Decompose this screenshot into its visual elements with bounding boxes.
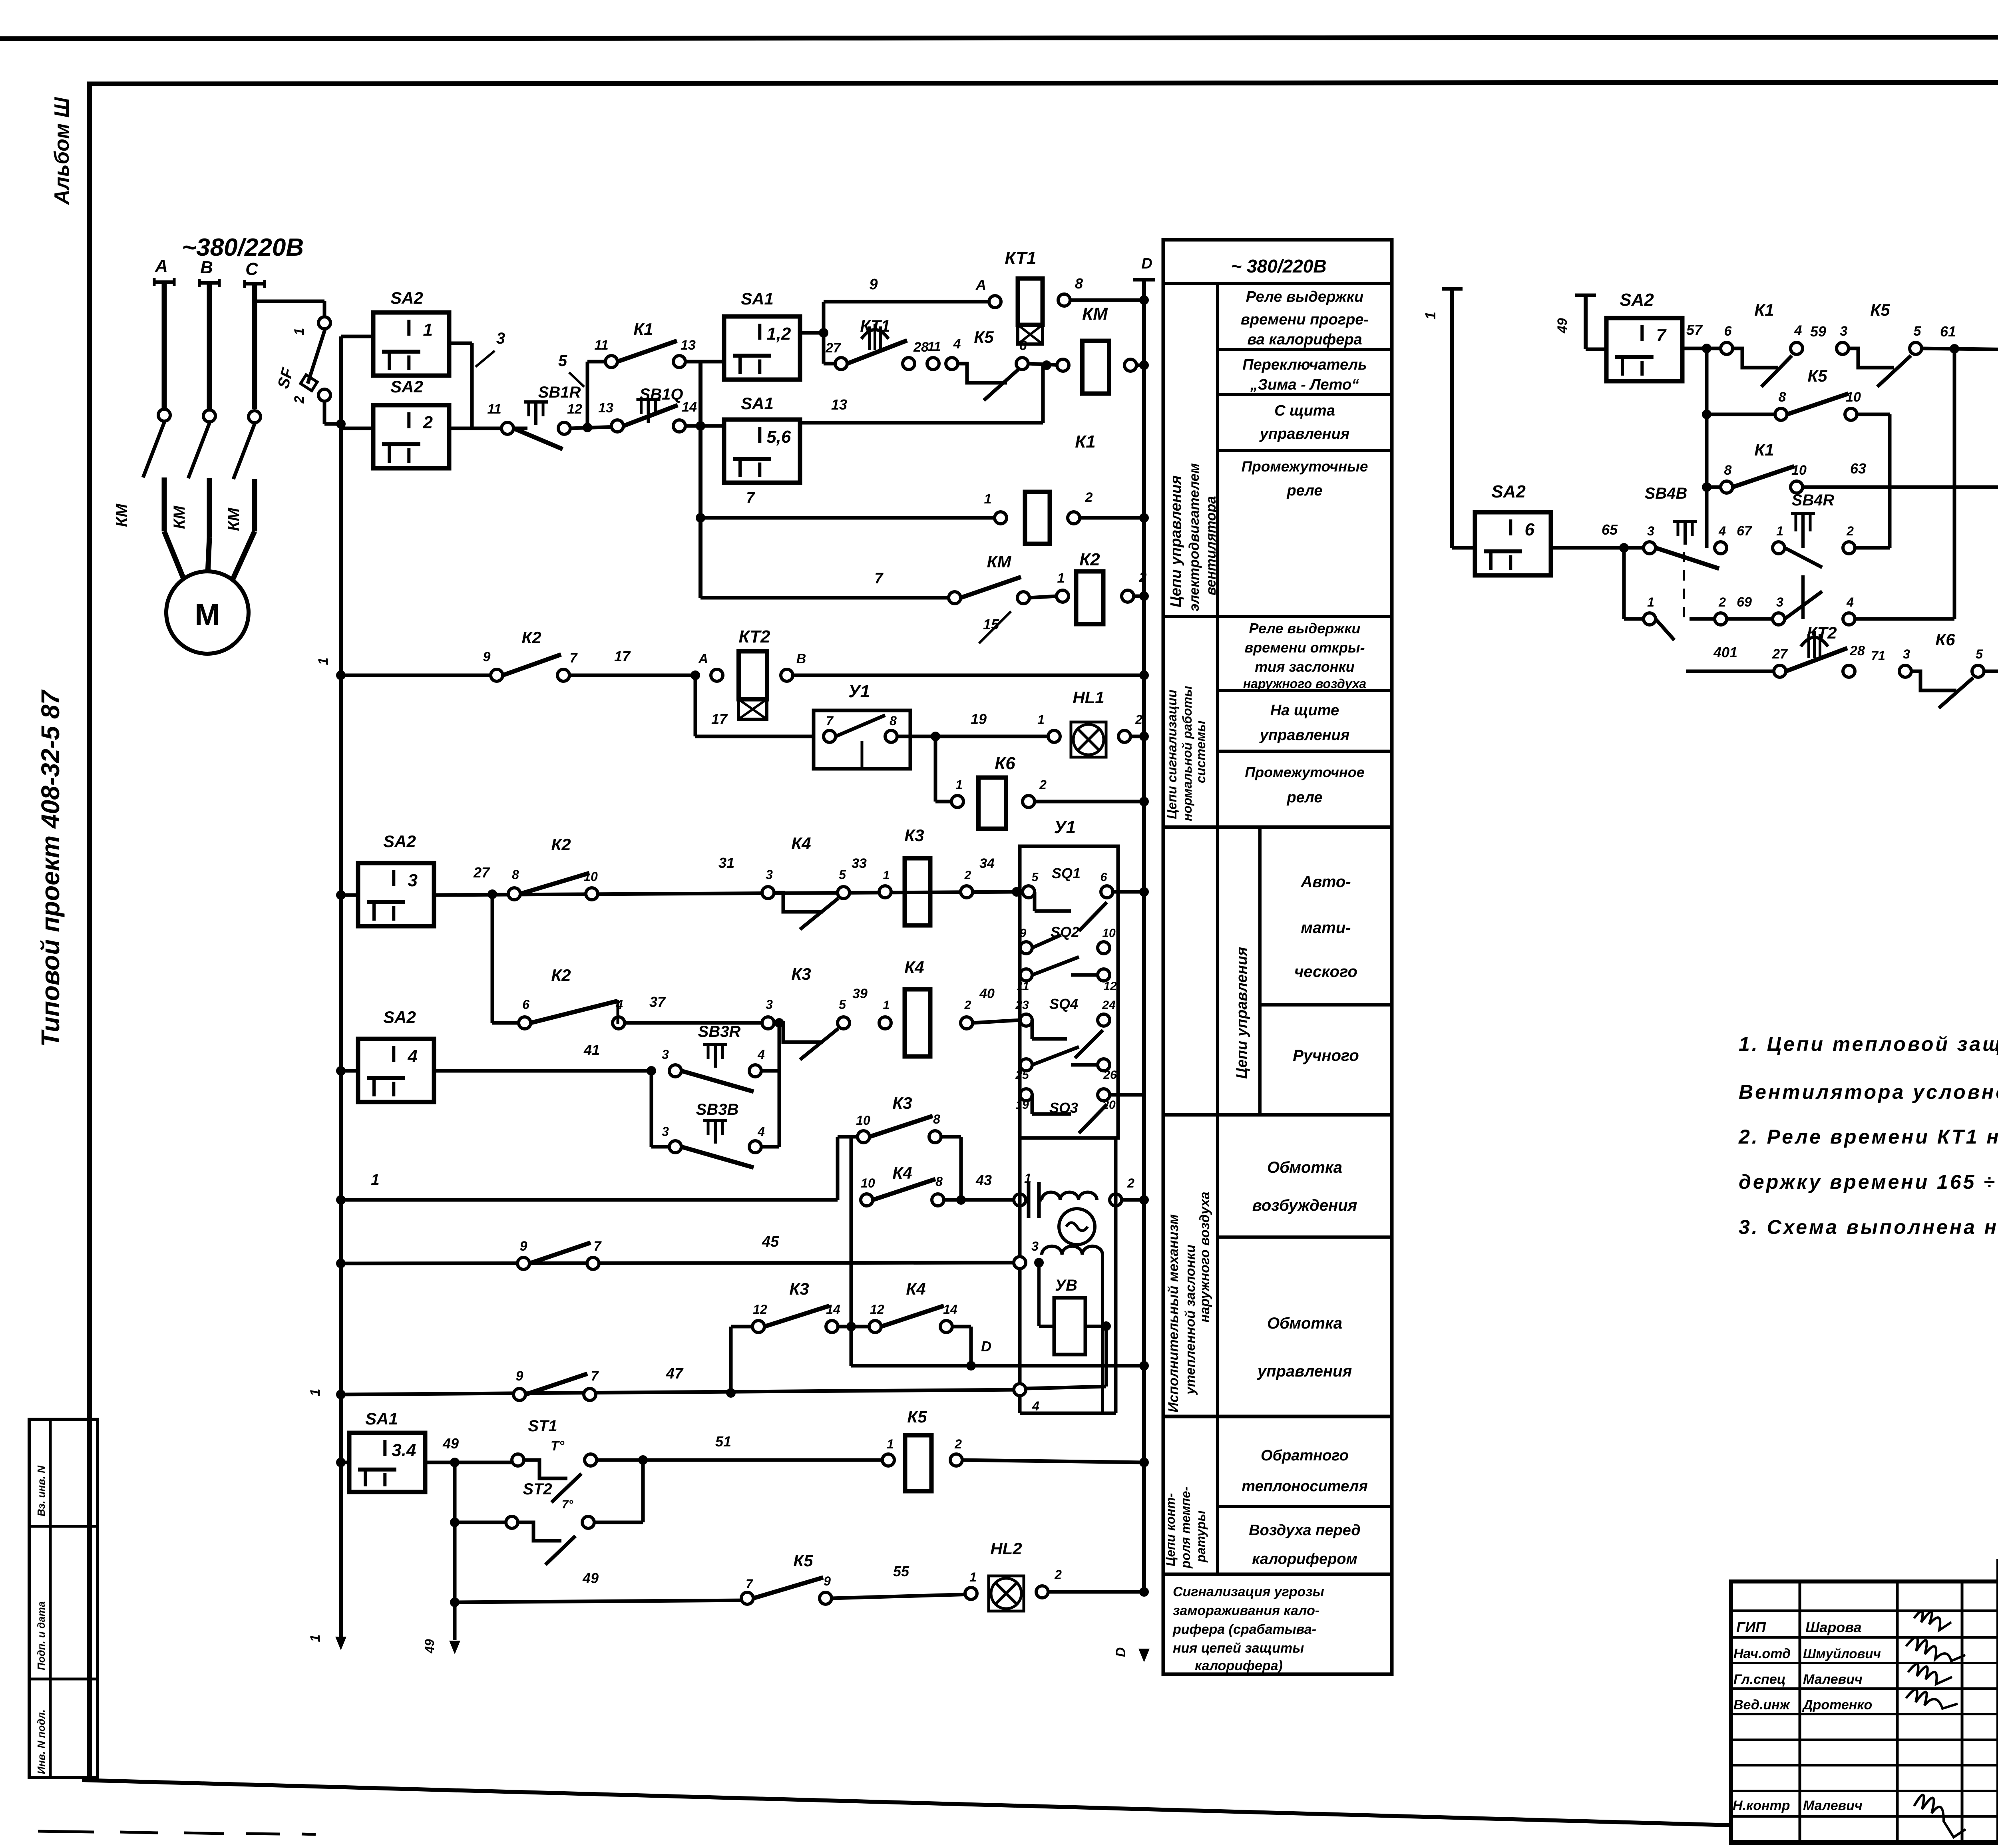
- svg-text:К3: К3: [904, 826, 924, 845]
- svg-text:Цепи управления: Цепи управления: [1168, 475, 1184, 607]
- svg-text:„Зима - Лето“: „Зима - Лето“: [1250, 376, 1359, 393]
- svg-text:5: 5: [1032, 871, 1039, 884]
- svg-text:3.4: 3.4: [392, 1440, 416, 1460]
- svg-text:2: 2: [1135, 712, 1142, 727]
- svg-text:Промежуточные: Промежуточные: [1242, 458, 1368, 475]
- svg-text:20: 20: [1102, 1098, 1116, 1112]
- wire rung K6: [934, 736, 937, 802]
- svg-text:24: 24: [1102, 999, 1116, 1012]
- svg-text:37: 37: [649, 994, 666, 1010]
- svg-text:1: 1: [308, 1389, 323, 1396]
- svg-text:40: 40: [979, 986, 995, 1001]
- svg-text:67: 67: [1737, 523, 1753, 539]
- svg-text:Типовой проект 408-32-5 87: Типовой проект 408-32-5 87: [36, 689, 65, 1047]
- svg-text:наружного воздуха: наружного воздуха: [1243, 676, 1366, 691]
- svg-text:SА2: SА2: [383, 832, 416, 851]
- svg-text:1,2: 1,2: [766, 324, 791, 344]
- svg-text:К5: К5: [1870, 300, 1890, 319]
- svg-text:Цепи сигнализации: Цепи сигнализации: [1164, 690, 1179, 819]
- svg-text:3: 3: [1776, 595, 1783, 609]
- svg-text:2: 2: [964, 999, 971, 1012]
- svg-text:SВ3R: SВ3R: [698, 1023, 741, 1040]
- svg-text:49: 49: [422, 1639, 437, 1654]
- title block signature grid: [1731, 1609, 1998, 1612]
- signatures scribbles: [1914, 1611, 1951, 1630]
- svg-text:электродвигателем: электродвигателем: [1186, 463, 1202, 611]
- svg-text:47: 47: [666, 1365, 684, 1382]
- svg-text:6: 6: [522, 997, 529, 1012]
- svg-text:калорифера): калорифера): [1195, 1658, 1283, 1673]
- svg-text:12: 12: [753, 1302, 767, 1317]
- wire SB3 join to rung2: [778, 1023, 781, 1147]
- svg-text:КМ: КМ: [1082, 304, 1108, 324]
- svg-text:13: 13: [598, 400, 613, 416]
- svg-text:1: 1: [1422, 312, 1439, 320]
- contact K4 12-14: [851, 1325, 875, 1329]
- svg-text:59: 59: [1810, 323, 1826, 340]
- wire to SB3 buttons: [434, 1069, 655, 1073]
- svg-text:2: 2: [954, 1437, 962, 1451]
- wire 51 to K5 coil: [597, 1458, 888, 1462]
- switch SA1 contacts 5-6: [700, 424, 724, 428]
- svg-text:8: 8: [1075, 275, 1083, 292]
- svg-text:SТ1: SТ1: [528, 1417, 557, 1435]
- svg-text:~380/220В: ~380/220В: [182, 234, 304, 261]
- contact K3 aux on 45: [517, 1257, 529, 1269]
- svg-text:13: 13: [681, 338, 696, 353]
- svg-text:Нач.отд: Нач.отд: [1733, 1646, 1791, 1661]
- wire rung K4 aux 47 to actuator 4: [336, 1390, 346, 1399]
- svg-text:6: 6: [1100, 871, 1107, 884]
- svg-text:К5: К5: [974, 328, 994, 346]
- central table frame: [1163, 240, 1392, 1674]
- svg-text:К3: К3: [892, 1094, 912, 1112]
- svg-text:К4: К4: [791, 834, 811, 853]
- svg-text:49: 49: [442, 1435, 459, 1452]
- switch SA2 contact 4: [336, 1066, 346, 1076]
- svg-text:27: 27: [473, 864, 490, 881]
- svg-text:3. Схема выполнена на двух: 3. Схема выполнена на двух листах . Лист…: [1739, 1216, 1998, 1238]
- svg-text:Вед.инж: Вед.инж: [1733, 1697, 1791, 1713]
- svg-text:41: 41: [583, 1042, 600, 1058]
- svg-text:К5: К5: [907, 1407, 927, 1426]
- svg-text:К5: К5: [1807, 366, 1827, 385]
- svg-text:2: 2: [1085, 490, 1093, 505]
- svg-text:25: 25: [1015, 1068, 1029, 1082]
- svg-text:8: 8: [1724, 463, 1732, 478]
- limit contact SQ2: [1020, 942, 1032, 954]
- svg-text:2: 2: [423, 413, 433, 432]
- svg-text:D: D: [1141, 255, 1152, 272]
- svg-text:держку времени 165 ÷ 170С ,: держку времени 165 ÷ 170С , КТ2 - 35 - 4…: [1739, 1171, 1998, 1193]
- svg-text:39: 39: [852, 986, 868, 1001]
- contactor KM main contact phase C: [249, 411, 261, 423]
- svg-text:23: 23: [1015, 999, 1029, 1012]
- svg-text:SА2: SА2: [1620, 290, 1654, 310]
- svg-text:9: 9: [1020, 927, 1027, 940]
- svg-text:3: 3: [766, 867, 773, 882]
- svg-text:КМ: КМ: [987, 552, 1012, 571]
- svg-text:10: 10: [1846, 390, 1861, 405]
- svg-text:28: 28: [1849, 643, 1865, 658]
- svg-text:утепленной заслонки: утепленной заслонки: [1183, 1245, 1198, 1395]
- svg-text:2: 2: [1127, 1176, 1134, 1190]
- svg-text:51: 51: [715, 1433, 731, 1450]
- svg-text:мати-: мати-: [1301, 919, 1351, 937]
- svg-text:управления: управления: [1257, 1363, 1352, 1380]
- svg-text:12: 12: [1103, 980, 1117, 993]
- svg-text:SА1: SА1: [365, 1409, 398, 1428]
- svg-text:8: 8: [890, 714, 897, 728]
- svg-text:1: 1: [887, 1437, 894, 1451]
- svg-text:65: 65: [1602, 521, 1618, 538]
- svg-text:63: 63: [1850, 460, 1866, 477]
- phase A wire: [162, 282, 167, 409]
- contactor KM main contact phase A: [158, 409, 170, 421]
- svg-text:системы: системы: [1193, 720, 1208, 783]
- svg-text:9: 9: [520, 1239, 527, 1254]
- svg-text:SА2: SА2: [390, 288, 423, 307]
- svg-text:9: 9: [869, 276, 878, 293]
- wire 43 to excitation winding: [961, 1198, 1020, 1202]
- svg-text:К2: К2: [1079, 550, 1100, 569]
- svg-text:возбуждения: возбуждения: [1252, 1197, 1357, 1214]
- svg-text:наружного воздуха: наружного воздуха: [1197, 1192, 1212, 1323]
- svg-text:69: 69: [1737, 595, 1752, 610]
- svg-text:нормальной работы: нормальной работы: [1180, 686, 1194, 821]
- svg-text:Вз. инв. N: Вз. инв. N: [35, 1465, 47, 1516]
- svg-text:2: 2: [1054, 1568, 1062, 1582]
- svg-text:8: 8: [935, 1174, 943, 1189]
- pushbutton SB3B: [650, 1071, 653, 1147]
- svg-text:3: 3: [496, 330, 505, 347]
- svg-text:27: 27: [1772, 647, 1788, 662]
- svg-text:7: 7: [594, 1239, 602, 1254]
- switch SA1 contacts 3-4: [336, 1458, 346, 1467]
- svg-text:9: 9: [824, 1574, 831, 1588]
- svg-text:реле: реле: [1286, 482, 1322, 499]
- svg-text:8: 8: [933, 1112, 940, 1126]
- svg-text:В: В: [200, 258, 213, 277]
- svg-text:11: 11: [927, 339, 941, 354]
- svg-text:Н.контр: Н.контр: [1733, 1798, 1790, 1813]
- wire SA1 output to KT1 branch: [800, 331, 824, 335]
- svg-text:НL2: НL2: [990, 1539, 1022, 1558]
- svg-text:К4: К4: [892, 1164, 912, 1182]
- svg-text:калорифером: калорифером: [1252, 1551, 1357, 1568]
- wire 19: [897, 735, 1054, 738]
- contact K3 12-14 upper: [731, 1325, 758, 1329]
- svg-text:11: 11: [487, 402, 501, 417]
- wire rung KM aux: [700, 596, 955, 600]
- svg-text:Воздуха перед: Воздуха перед: [1249, 1522, 1361, 1539]
- right rail 1: [1450, 289, 1454, 548]
- svg-text:К2: К2: [521, 628, 541, 647]
- wire SF to rail: [323, 401, 326, 424]
- limit contact SQ1: [1023, 886, 1035, 898]
- svg-text:1: 1: [371, 1172, 379, 1188]
- svg-text:14: 14: [826, 1302, 840, 1317]
- svg-text:ва калорифера: ва калорифера: [1247, 331, 1362, 348]
- svg-text:4: 4: [1032, 1399, 1039, 1413]
- svg-text:времени прогре-: времени прогре-: [1241, 311, 1369, 328]
- svg-text:5: 5: [558, 352, 567, 370]
- svg-text:Шмуйлович: Шмуйлович: [1803, 1646, 1881, 1661]
- wire rung K2 KT2: [336, 670, 346, 680]
- svg-text:С: С: [245, 259, 259, 279]
- svg-text:7: 7: [591, 1369, 599, 1384]
- svg-text:33: 33: [852, 856, 867, 871]
- svg-text:5: 5: [839, 867, 846, 882]
- svg-text:А: А: [975, 277, 986, 293]
- svg-text:Реле выдержки: Реле выдержки: [1246, 288, 1363, 305]
- svg-text:Подп. и дата: Подп. и дата: [35, 1601, 47, 1670]
- switch SF: [318, 317, 330, 329]
- svg-text:9: 9: [483, 649, 491, 664]
- title block frame: [1731, 1581, 1998, 1843]
- svg-text:57: 57: [1686, 322, 1703, 338]
- svg-text:7: 7: [1656, 326, 1667, 345]
- svg-text:М: М: [195, 598, 220, 632]
- svg-text:SА1: SА1: [741, 289, 774, 308]
- svg-text:3: 3: [662, 1124, 669, 1139]
- svg-text:D: D: [981, 1338, 991, 1355]
- svg-text:Исполнительный механизм: Исполнительный механизм: [1166, 1214, 1181, 1412]
- svg-text:26: 26: [1103, 1068, 1117, 1082]
- svg-text:7: 7: [570, 650, 578, 666]
- wire rung SA2.7: [1682, 347, 1721, 350]
- rail D right: [1142, 280, 1146, 1594]
- svg-text:14: 14: [682, 400, 697, 415]
- left rail bus 1: [339, 336, 343, 1638]
- svg-text:Альбом Ш: Альбом Ш: [50, 97, 74, 205]
- svg-text:На щите: На щите: [1270, 702, 1339, 719]
- svg-text:К1: К1: [1075, 432, 1096, 452]
- wire D from K3/K4 block: [850, 1137, 853, 1366]
- svg-text:2: 2: [1139, 570, 1147, 585]
- motor M1: [166, 571, 249, 654]
- svg-text:Переключатель: Переключатель: [1242, 356, 1367, 373]
- svg-text:Сигнализация угрозы: Сигнализация угрозы: [1173, 1584, 1324, 1599]
- svg-text:2: 2: [1039, 778, 1047, 792]
- svg-text:71: 71: [1871, 648, 1885, 663]
- svg-text:55: 55: [893, 1563, 909, 1579]
- svg-text:49: 49: [582, 1570, 599, 1586]
- svg-text:2: 2: [1718, 595, 1726, 609]
- wire SA2 parallel branch: [341, 335, 373, 338]
- svg-text:ГИП: ГИП: [1736, 1619, 1766, 1635]
- motor leads: [164, 531, 186, 584]
- central table row lines: [1218, 348, 1392, 351]
- svg-text:А: А: [155, 256, 168, 276]
- svg-text:4: 4: [757, 1124, 765, 1139]
- svg-text:4: 4: [615, 997, 623, 1012]
- svg-text:Реле выдержки: Реле выдержки: [1249, 620, 1361, 637]
- svg-text:3: 3: [662, 1047, 669, 1062]
- wire rung U1 HL1: [694, 675, 697, 736]
- svg-text:1: 1: [308, 1635, 323, 1642]
- wire junction to SB1Q and K1 branch: [570, 427, 617, 428]
- svg-text:10: 10: [856, 1113, 870, 1128]
- wire 45 rung K3 aux: [336, 1259, 346, 1268]
- svg-text:К6: К6: [1935, 630, 1955, 649]
- branch K5 8-10: [1705, 348, 1709, 548]
- svg-text:12: 12: [870, 1302, 884, 1317]
- svg-text:SА2: SА2: [383, 1008, 416, 1026]
- svg-text:КМ: КМ: [113, 503, 131, 527]
- svg-text:4: 4: [953, 336, 961, 352]
- wire rung 1 feed: [336, 1195, 346, 1205]
- svg-text:SА2: SА2: [1491, 482, 1526, 501]
- svg-text:1: 1: [316, 658, 331, 665]
- actuator box side walls: [1018, 1138, 1022, 1413]
- central table verticals: [1216, 283, 1219, 1574]
- svg-text:ческого: ческого: [1294, 963, 1357, 981]
- svg-text:рифера (срабатыва-: рифера (срабатыва-: [1172, 1622, 1316, 1637]
- svg-text:Инв. N подл.: Инв. N подл.: [35, 1709, 47, 1774]
- wire 13 from SA1 5,6: [800, 421, 1043, 425]
- svg-text:14: 14: [943, 1302, 957, 1317]
- wire rung SB4B SB4R: [1551, 546, 1650, 550]
- svg-text:10: 10: [861, 1176, 875, 1190]
- svg-text:19: 19: [971, 711, 987, 727]
- wire rung SA2.3 to K3 coil: [434, 892, 1020, 895]
- svg-text:Промежуточное: Промежуточное: [1245, 764, 1365, 780]
- svg-text:1: 1: [1776, 524, 1783, 538]
- wire phase C to SF: [255, 300, 324, 303]
- svg-text:10: 10: [1791, 463, 1807, 478]
- svg-text:УВ: УВ: [1055, 1277, 1077, 1294]
- svg-text:12: 12: [567, 402, 582, 417]
- svg-text:SВ4В: SВ4В: [1645, 485, 1688, 502]
- svg-text:4: 4: [1718, 524, 1726, 538]
- svg-text:7: 7: [826, 714, 834, 728]
- svg-text:К5: К5: [793, 1551, 813, 1570]
- svg-text:вентилятора: вентилятора: [1203, 496, 1219, 595]
- svg-text:К1: К1: [1754, 440, 1774, 459]
- wire 49 rung to HL2: [455, 1600, 747, 1602]
- svg-text:11: 11: [1017, 980, 1029, 993]
- svg-text:Ручного: Ручного: [1293, 1047, 1359, 1064]
- svg-text:Обмотка: Обмотка: [1267, 1315, 1342, 1332]
- branch K1 8-10 wire 63: [1702, 482, 1711, 492]
- AC source symbol: [1014, 1257, 1026, 1269]
- svg-text:61: 61: [1940, 323, 1956, 340]
- svg-text:45: 45: [762, 1233, 779, 1250]
- contactor KM main contact phase B: [203, 410, 215, 422]
- svg-text:Обмотка: Обмотка: [1267, 1159, 1342, 1176]
- svg-text:7°: 7°: [562, 1498, 574, 1511]
- svg-text:роля темпе-: роля темпе-: [1178, 1487, 1193, 1569]
- svg-text:SВ4R: SВ4R: [1792, 491, 1835, 509]
- svg-text:4: 4: [1846, 595, 1854, 609]
- wire 49 junction: [425, 1461, 518, 1464]
- left stamp boxes: [29, 1419, 98, 1778]
- svg-text:7: 7: [746, 489, 755, 506]
- svg-text:КТ2: КТ2: [739, 627, 770, 647]
- svg-text:К2: К2: [551, 966, 571, 985]
- nodes 11 4: [927, 358, 939, 370]
- phase C wire: [252, 284, 257, 409]
- svg-text:3: 3: [766, 997, 773, 1012]
- thermostat ST2 parallel: [453, 1462, 457, 1640]
- svg-text:ратуры: ратуры: [1194, 1510, 1208, 1563]
- svg-text:2: 2: [292, 396, 307, 404]
- svg-text:Малевич: Малевич: [1803, 1672, 1863, 1687]
- scan edge dashes bottom left: [38, 1831, 94, 1832]
- contact K4 aux on 47: [513, 1388, 525, 1400]
- svg-text:7: 7: [874, 570, 884, 587]
- svg-text:К6: К6: [995, 754, 1015, 773]
- svg-text:3: 3: [408, 871, 418, 890]
- switch SA1 contacts 1-2: [700, 360, 724, 364]
- svg-text:8: 8: [512, 867, 519, 882]
- svg-text:34: 34: [979, 856, 995, 871]
- svg-text:3: 3: [1840, 324, 1848, 339]
- svg-text:10: 10: [1102, 927, 1116, 940]
- sub-rail junction vertical: [699, 362, 702, 598]
- svg-text:К3: К3: [791, 965, 811, 983]
- svg-text:ния цепей защиты: ния цепей защиты: [1173, 1641, 1304, 1656]
- svg-text:У1: У1: [848, 682, 870, 701]
- svg-text:В: В: [796, 651, 806, 666]
- svg-text:SQ1: SQ1: [1052, 865, 1081, 881]
- svg-text:5: 5: [1976, 647, 1983, 661]
- svg-text:КМ: КМ: [171, 505, 188, 529]
- limit contact SQ4: [1020, 1014, 1032, 1026]
- svg-text:49: 49: [1555, 318, 1570, 334]
- svg-text:6: 6: [1019, 338, 1027, 353]
- svg-text:D: D: [1113, 1647, 1128, 1657]
- svg-text:1: 1: [969, 1570, 977, 1584]
- svg-text:4: 4: [757, 1047, 765, 1062]
- svg-text:Малевич: Малевич: [1803, 1798, 1863, 1813]
- svg-text:Шарова: Шарова: [1805, 1619, 1862, 1635]
- svg-text:8: 8: [1779, 390, 1786, 405]
- svg-text:Авто-: Авто-: [1300, 873, 1351, 891]
- svg-text:17: 17: [711, 711, 728, 727]
- wire 61 to U2: [1922, 348, 1998, 350]
- svg-text:10: 10: [583, 869, 598, 884]
- svg-text:НL1: НL1: [1073, 688, 1104, 707]
- svg-text:SВ3В: SВ3В: [696, 1101, 739, 1118]
- svg-text:27: 27: [825, 340, 842, 356]
- svg-text:11: 11: [594, 338, 608, 353]
- svg-text:А: А: [698, 651, 708, 666]
- svg-text:6: 6: [1724, 324, 1732, 339]
- svg-text:тия заслонки: тия заслонки: [1255, 658, 1355, 675]
- svg-text:4: 4: [408, 1046, 418, 1066]
- svg-text:1: 1: [1037, 712, 1045, 727]
- svg-text:5: 5: [1914, 324, 1922, 339]
- wire rung 7 to K1 coil: [700, 516, 1001, 520]
- svg-text:Гл.спец: Гл.спец: [1733, 1672, 1786, 1687]
- svg-text:1: 1: [883, 869, 890, 882]
- svg-text:1: 1: [292, 328, 307, 336]
- svg-text:К1: К1: [1754, 300, 1774, 319]
- svg-text:3: 3: [1031, 1239, 1039, 1253]
- contact K3 10-8 parallel: [836, 1137, 840, 1200]
- svg-text:5: 5: [839, 997, 846, 1012]
- svg-text:13: 13: [831, 396, 847, 413]
- svg-text:У1: У1: [1054, 818, 1076, 837]
- svg-text:1: 1: [1057, 571, 1065, 586]
- svg-text:43: 43: [975, 1172, 992, 1188]
- svg-text:7: 7: [746, 1577, 754, 1591]
- svg-text:К1: К1: [633, 320, 653, 338]
- svg-text:К2: К2: [551, 835, 571, 854]
- svg-text:401: 401: [1713, 644, 1737, 660]
